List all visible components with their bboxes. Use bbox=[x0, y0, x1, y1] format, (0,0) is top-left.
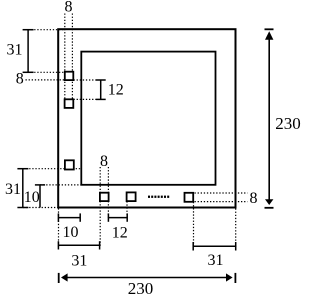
gauge square L1 bbox=[65, 72, 74, 80]
dotted leader: bottom 8 left vertical bbox=[99, 167, 101, 248]
svg-text:12: 12 bbox=[108, 81, 124, 98]
dim 230 right vertical arrow bbox=[265, 29, 274, 208]
svg-text:8: 8 bbox=[100, 153, 108, 170]
dim 12 bottom bracket bbox=[108, 213, 127, 221]
svg-text:31: 31 bbox=[71, 253, 87, 270]
dim 31 top-left bbox=[23, 30, 34, 73]
svg-text:31: 31 bbox=[208, 252, 224, 269]
dotted leader: right 8 upper bbox=[195, 192, 248, 194]
svg-text:8: 8 bbox=[65, 0, 73, 16]
dim 31 bottom-left bracket bbox=[58, 241, 99, 249]
gauge square L3 bbox=[65, 160, 74, 169]
svg-text:12: 12 bbox=[112, 224, 128, 241]
dotted leader: top 8 right edge bbox=[71, 14, 73, 100]
arrowhead 230 right up bbox=[265, 31, 273, 40]
ellipsis dots between B2 and B3 bbox=[148, 196, 169, 198]
dim 230 bottom horizontal arrow bbox=[59, 273, 236, 283]
svg-text:31: 31 bbox=[7, 42, 23, 59]
dotted leader: 12 lower to square L2 bbox=[74, 98, 96, 100]
dim 31 lower-left bbox=[17, 169, 28, 208]
dotted leader: bottom 12 right vertical bbox=[126, 201, 128, 217]
dotted leader: left bottom shared bbox=[23, 207, 59, 209]
svg-text:230: 230 bbox=[128, 279, 154, 298]
dotted leader: 31 top-left upper bbox=[28, 29, 64, 31]
gauge square B3 bbox=[185, 193, 194, 202]
arrowhead 230 bottom left bbox=[61, 273, 68, 281]
gauge square L2 bbox=[65, 99, 74, 108]
svg-text:8: 8 bbox=[16, 70, 24, 87]
dotted leader: square B3 right vertical bbox=[193, 202, 195, 248]
inner plate square bbox=[81, 52, 215, 185]
outer plate square bbox=[58, 29, 235, 207]
svg-text:31: 31 bbox=[5, 181, 21, 198]
dotted leader: 12 upper to square L1 bbox=[74, 79, 96, 81]
dotted leader: right 8 lower bbox=[195, 201, 248, 203]
dim 12 upper bbox=[96, 80, 106, 99]
dotted leader: bottom 8 right vertical bbox=[107, 167, 109, 218]
dim 31 bottom-right bracket bbox=[193, 242, 236, 251]
dotted leader: bottom-right corner vertical bbox=[235, 209, 237, 249]
svg-text:230: 230 bbox=[275, 114, 301, 133]
arrowhead 230 right down bbox=[265, 199, 273, 205]
svg-text:8: 8 bbox=[250, 190, 258, 207]
svg-text:10: 10 bbox=[63, 224, 79, 241]
dotted leader: top 8 left edge bbox=[64, 14, 66, 100]
dotted leader: left 8 lower bbox=[26, 79, 65, 81]
arrowhead 230 bottom right bbox=[226, 273, 233, 281]
dotted leader: bottom-left corner vertical bbox=[58, 208, 60, 247]
gauge square B1 bbox=[100, 193, 109, 201]
dotted leader: 10 left upper bbox=[40, 184, 81, 186]
dim 10 bottom bracket bbox=[58, 213, 80, 221]
svg-text:10: 10 bbox=[24, 189, 40, 206]
gauge square B2 bbox=[127, 192, 136, 201]
dim 10 left bbox=[35, 185, 45, 208]
dotted leader: 31 top-left lower bbox=[28, 71, 65, 73]
dotted leader: 31 lower-left upper bbox=[23, 168, 81, 170]
